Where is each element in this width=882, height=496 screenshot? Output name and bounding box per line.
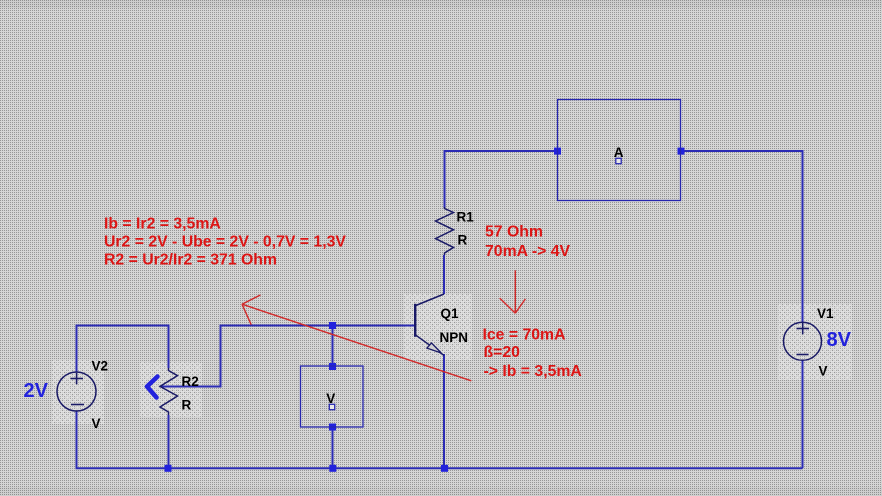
junction voltmeter bottom pin: [329, 424, 336, 431]
svg-text:V: V: [326, 391, 335, 406]
wire R2 tap to Q1 base: [160, 326, 416, 387]
dither patch Q1: [404, 294, 472, 360]
resistor R2: [160, 368, 178, 415]
svg-text:R1: R1: [457, 210, 475, 225]
svg-text:57 Ohm: 57 Ohm: [485, 223, 543, 240]
svg-text:R: R: [458, 233, 468, 248]
wire V1 bottom to rail: [802, 360, 804, 468]
R2 wiper arrow: [147, 377, 158, 398]
wire R1 top to ammeter left: [445, 151, 558, 208]
ammeter U-A box: [558, 100, 681, 201]
dither patch V2: [52, 360, 104, 424]
svg-text:Ur2 = 2V - Ube = 2V - 0,7V = 1: Ur2 = 2V - Ube = 2V - 0,7V = 1,3V: [104, 233, 346, 250]
svg-text:NPN: NPN: [440, 330, 469, 345]
svg-text:Q1: Q1: [441, 306, 460, 321]
wire voltmeter bottom to rail: [332, 427, 334, 468]
junction base node: [329, 322, 336, 329]
junction rail voltmeter: [329, 465, 336, 472]
wire base node to voltmeter top: [332, 326, 334, 367]
annotation text left block: [104, 215, 346, 268]
wire V2+ to R2 top: [77, 326, 169, 373]
junction ammeter right pin: [678, 148, 685, 155]
svg-text:Ice = 70mA: Ice = 70mA: [483, 326, 566, 343]
resistor R1: [436, 207, 454, 255]
svg-text:R2 = Ur2/Ir2 = 371 Ohm: R2 = Ur2/Ir2 = 371 Ohm: [104, 251, 277, 268]
svg-text:2V: 2V: [24, 380, 49, 402]
annotation arrow long: [242, 295, 471, 381]
bottom moire strip: [0, 487, 882, 496]
junction ammeter left pin: [554, 148, 561, 155]
wire R1 bottom to Q1 collector: [443, 255, 445, 294]
svg-text:V: V: [819, 364, 828, 379]
voltmeter U-V box: [301, 366, 364, 427]
svg-text:V2: V2: [92, 358, 109, 373]
junction rail emitter: [441, 465, 448, 472]
wire ammeter right to V1 top: [681, 151, 803, 323]
svg-text:Ib = Ir2 = 3,5mA: Ib = Ir2 = 3,5mA: [104, 215, 221, 232]
transistor Q1: [415, 294, 444, 355]
wire ground rail: [77, 411, 803, 468]
annotation arrow down: [500, 270, 526, 313]
junction rail R2: [165, 465, 172, 472]
annotation text R1 block: [485, 223, 570, 260]
svg-text:8V: 8V: [827, 329, 852, 351]
dither patch V1: [778, 304, 852, 380]
svg-text:V1: V1: [817, 306, 834, 321]
svg-text:70mA -> 4V: 70mA -> 4V: [485, 243, 570, 260]
svg-text:V: V: [92, 416, 101, 431]
source V1: [784, 322, 822, 360]
dither patch R2: [140, 362, 202, 417]
svg-text:ß=20: ß=20: [484, 344, 521, 361]
svg-text:R: R: [182, 398, 192, 413]
annotation text Ice block: [483, 326, 582, 380]
svg-text:-> Ib = 3,5mA: -> Ib = 3,5mA: [484, 363, 582, 380]
wire R2 bottom to ground rail: [168, 415, 170, 468]
svg-text:A: A: [614, 145, 624, 160]
source V2: [57, 372, 96, 411]
top moire strip: [0, 0, 882, 8]
junction voltmeter top pin: [329, 363, 336, 370]
svg-text:R2: R2: [182, 374, 199, 389]
wire Q1 emitter to rail: [443, 354, 445, 468]
